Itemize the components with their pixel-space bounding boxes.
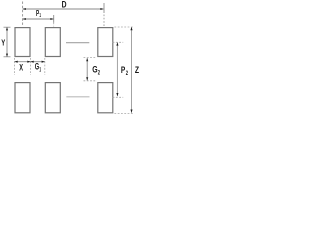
extension line row1 center (dashed, to P2) [113,41,124,43]
break line bottom row [66,96,89,98]
pad top row col3 [98,28,113,57]
arrow G1 right [42,61,45,63]
arrow Y top [6,27,8,30]
arrow P1 left [23,18,26,20]
arrow Z bottom [130,110,132,113]
arrow Z top [130,27,132,30]
extension line pad3 center (dashed vertical) [103,3,105,13]
pad bottom row col3 [98,83,113,113]
pad top row col1 [15,28,30,57]
svg-text:X: X [19,63,23,73]
extension line row2 top edge (dashed, left of pad6) [84,80,96,82]
dimension line P2 [116,42,118,96]
dimension line Y [6,27,8,57]
dimension line Z [131,27,133,113]
arrow Y bottom [6,54,8,57]
svg-text:1: 1 [39,13,41,19]
background [0,0,141,117]
svg-text:Y: Y [1,38,5,48]
arrow G2 top [86,58,88,61]
extension line pad1 center (dashed vertical) [22,2,24,27]
arrow G2 bottom [86,77,88,80]
arrow P2 bottom [116,93,118,96]
arrow X left [15,61,18,63]
extension line pad1 right (dashed below) [30,58,32,75]
dimension line D [23,8,104,10]
arrow P2 top [116,42,118,45]
svg-text:P: P [121,65,125,75]
extension line pad3 top edge (dashed, to Z) [114,26,132,28]
extension line pad1 left (dashed below) [14,58,16,75]
extension line row2 center (dashed, to P2) [113,96,124,98]
dimension line X [15,61,31,63]
extension line pad2 center (vertical, P1 right end) [53,15,55,23]
tick Y top [4,26,11,28]
dimension line G1 [31,61,45,63]
svg-text:D: D [62,0,67,10]
tick Y bottom [4,56,11,58]
pad bottom row col1 [15,83,30,113]
extension line row1 bottom edge (dashed, left of pad3) [84,57,96,59]
pad bottom row col2 [45,83,60,113]
arrow D right [100,8,103,10]
break line top row [66,42,89,44]
extension line pad2 left (dashed below) [44,58,46,75]
arrow X right [27,61,30,63]
dimension line G2 [86,58,88,80]
arrow D left [23,8,26,10]
svg-text:Z: Z [135,65,140,75]
extension line pad6 bottom edge (dashed, to Z) [114,112,132,114]
dimension line P1 [23,18,54,20]
arrow G1 left [31,61,34,63]
arrow P1 right [50,18,53,20]
pad top row col2 [45,28,60,57]
